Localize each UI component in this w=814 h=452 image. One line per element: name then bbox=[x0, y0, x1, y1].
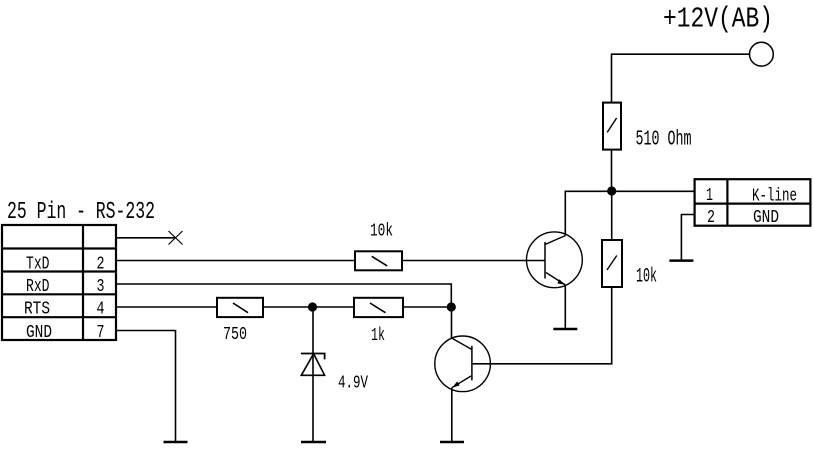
terminal +12V circle bbox=[750, 42, 774, 66]
resistor R2 10k vertical bbox=[602, 240, 622, 287]
zener diode VD1 bbox=[301, 354, 325, 376]
svg-text:10k: 10k bbox=[370, 222, 393, 242]
no-connect X mark bbox=[169, 231, 183, 245]
wire K-line pin 2 to ground bbox=[681, 215, 694, 261]
resistor R4 750 bbox=[217, 298, 263, 317]
svg-text:4.9V: 4.9V bbox=[338, 373, 368, 393]
ground for K-line pin 2 bbox=[669, 259, 693, 262]
wire GND pin to ground bbox=[116, 331, 176, 443]
svg-text:1k: 1k bbox=[371, 326, 385, 346]
wire node C to zener cathode bbox=[312, 307, 314, 442]
svg-text:750: 750 bbox=[223, 325, 247, 345]
resistor R5 1k bbox=[354, 298, 403, 317]
transistor Q1 bbox=[527, 232, 583, 288]
ground for J1 GND bbox=[164, 441, 188, 444]
node A junction dot bbox=[607, 186, 616, 195]
connector J1 DB-25 table bbox=[2, 225, 116, 340]
ground for Q2 emitter bbox=[440, 441, 464, 444]
transistor Q2 bbox=[435, 336, 491, 392]
wire RxD to node B bbox=[116, 284, 451, 307]
wire R1k right to node B bbox=[403, 306, 451, 308]
svg-text:2: 2 bbox=[707, 208, 715, 228]
svg-text:K-line: K-line bbox=[752, 187, 797, 207]
wire Q2 emitter to ground bbox=[451, 388, 453, 442]
svg-text:25 Pin - RS-232: 25 Pin - RS-232 bbox=[7, 199, 155, 226]
node B junction dot bbox=[447, 302, 456, 311]
wire node B to Q2 collector bbox=[451, 307, 453, 338]
svg-text:TxD: TxD bbox=[26, 255, 50, 275]
node C junction dot bbox=[308, 302, 317, 311]
svg-text:GND: GND bbox=[26, 323, 52, 343]
svg-text:3: 3 bbox=[97, 277, 105, 297]
ground for zener bbox=[301, 441, 326, 444]
svg-text:GND: GND bbox=[753, 208, 779, 228]
wire R10k bottom to Q2 base bbox=[472, 287, 612, 364]
svg-text:RTS: RTS bbox=[24, 300, 50, 320]
wire node A to K-line connector pin 1 bbox=[612, 190, 695, 192]
wire TxD to R10k left bbox=[116, 260, 355, 262]
resistor R3 10k horizontal bbox=[355, 251, 402, 270]
svg-text:4: 4 bbox=[97, 300, 105, 320]
connector J2 K-line table bbox=[695, 179, 811, 226]
wire RTS to R750 left bbox=[116, 306, 217, 308]
svg-text:10k: 10k bbox=[636, 266, 657, 289]
svg-text:7: 7 bbox=[97, 323, 105, 343]
wire node A to Q1 collector bbox=[565, 191, 611, 235]
wire NC row to X mark bbox=[116, 237, 176, 239]
svg-text:+12V(AB): +12V(AB) bbox=[663, 2, 773, 35]
wire Q1 emitter to ground bbox=[564, 285, 566, 329]
wire R10k right to Q1 base bbox=[402, 260, 545, 262]
svg-text:510 Ohm: 510 Ohm bbox=[636, 129, 692, 152]
resistor R1 510 Ohm bbox=[603, 103, 621, 150]
wire node A to R10k top bbox=[611, 191, 613, 240]
svg-text:RxD: RxD bbox=[26, 277, 50, 297]
wire R510 bottom to node A bbox=[611, 150, 613, 191]
wire +12V terminal to R510 top bbox=[612, 54, 750, 102]
svg-text:2: 2 bbox=[97, 255, 105, 275]
svg-text:1: 1 bbox=[706, 186, 713, 206]
wire R750 right to node C bbox=[263, 306, 354, 308]
ground for Q1 emitter bbox=[553, 328, 577, 331]
